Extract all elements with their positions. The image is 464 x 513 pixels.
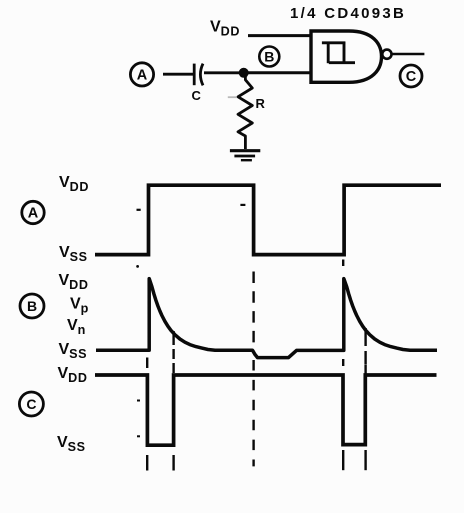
ground	[230, 151, 260, 161]
dashed line at second pulse end	[364, 328, 366, 470]
svg-text:Vp: Vp	[70, 296, 89, 316]
waveform A	[95, 185, 441, 254]
wire VDD to gate top input	[248, 34, 311, 37]
node B	[259, 47, 279, 67]
wire gate output	[392, 53, 425, 56]
stray dot below A low	[136, 265, 139, 268]
svg-text:B: B	[27, 298, 37, 314]
svg-text:VDD: VDD	[210, 19, 240, 39]
capacitor C	[194, 64, 203, 86]
stray dot left of C pulse	[137, 400, 140, 402]
dashed line at first rise	[146, 358, 148, 471]
svg-text:VSS: VSS	[59, 244, 88, 264]
svg-text:C: C	[406, 69, 417, 85]
gate U1 1/4 CD4093B NAND body	[311, 31, 382, 82]
output bubble	[382, 50, 391, 59]
node C waveform row	[19, 392, 43, 416]
svg-text:VDD: VDD	[59, 174, 89, 194]
wire junction to gate bottom input	[243, 71, 311, 74]
svg-text:VSS: VSS	[57, 434, 86, 454]
dashed line at first pulse end	[172, 331, 174, 471]
svg-text:A: A	[28, 206, 39, 222]
dashed line at A fall	[252, 272, 254, 353]
node A waveform row	[22, 201, 44, 223]
hysteresis symbol	[322, 42, 355, 64]
svg-text:C: C	[26, 396, 36, 412]
svg-text:B: B	[264, 49, 274, 65]
node B waveform row	[20, 294, 44, 318]
wire capacitor to junction	[204, 71, 243, 74]
node C	[400, 65, 422, 87]
stray mark left of A fall	[240, 204, 245, 206]
stray dot left of C low	[137, 435, 140, 437]
svg-text:Vn: Vn	[67, 317, 86, 337]
svg-text:A: A	[137, 68, 148, 84]
junction dot node B net	[239, 68, 249, 78]
waveform B	[96, 279, 437, 358]
stray mark left of A rise	[137, 209, 141, 211]
resistor R	[238, 75, 252, 149]
node A	[130, 63, 153, 86]
wire A to capacitor	[163, 73, 193, 76]
svg-text:VSS: VSS	[59, 341, 88, 361]
dashed line at second rise	[342, 260, 344, 471]
svg-text:R: R	[256, 96, 266, 111]
svg-text:VDD: VDD	[58, 365, 88, 385]
svg-text:C: C	[192, 88, 202, 103]
svg-text:1/4 CD4093B: 1/4 CD4093B	[290, 5, 406, 22]
stray gray dashes left of resistor	[228, 96, 237, 98]
waveform C	[95, 375, 437, 445]
svg-text:VDD: VDD	[59, 272, 89, 292]
